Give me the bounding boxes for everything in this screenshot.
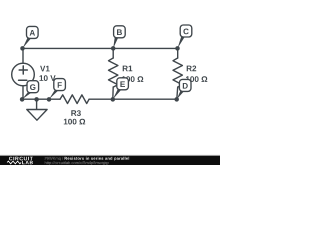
node G flag [22,81,38,100]
ground junction [34,97,39,102]
wire top rail from node A to node C [23,47,178,49]
node C junction [175,46,180,51]
node A junction [20,46,25,51]
ground symbol [27,99,47,120]
node E flag [113,78,129,100]
footer line 1 title [65,157,130,161]
V1 plus sign [19,66,27,74]
node B flag [113,26,125,49]
wire R2 top lead [177,48,179,58]
node D junction [174,97,179,102]
node F flag [49,79,65,100]
node A flag [23,26,39,48]
label R2 [187,66,197,72]
wire R2 bottom lead [176,87,179,99]
label R3 [71,110,81,116]
node E junction [111,97,116,102]
wire bottom rail right segment (R3 to node D) [89,98,177,100]
wire R1 top lead [112,48,114,58]
wire V1 bottom lead [22,86,24,99]
resistor R1 zigzag [109,58,118,87]
value 10 V [40,75,56,81]
CircuitLab logo LAB text [22,161,33,164]
wire bottom rail left segment (node G to R3) [22,98,60,100]
value R1 100 ohm [122,76,143,82]
resistor R2 zigzag [173,58,182,87]
node C flag [178,25,192,48]
label R1 [123,66,133,72]
footer line 2 url [45,161,109,165]
value R3 100 ohm [64,119,85,125]
value R2 100 ohm [186,76,207,82]
node G junction [20,97,25,102]
node B junction [111,46,116,51]
voltage source V1 body [12,63,35,86]
node D flag [177,79,191,99]
V1 minus sign [19,79,27,81]
wire V1 top lead [22,48,24,63]
resistor R3 zigzag [60,95,89,104]
footer bar [0,155,220,156]
wire R1 bottom lead [112,87,114,99]
footer line 1 id prefix [45,157,64,161]
label V1 [40,66,50,72]
node F junction [47,97,52,102]
CircuitLab logo CIRCUIT text [9,157,33,161]
CircuitLab logo resistor zigzag [7,161,21,164]
